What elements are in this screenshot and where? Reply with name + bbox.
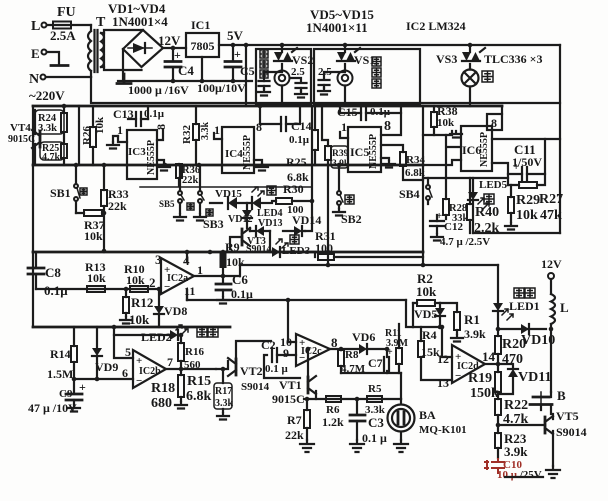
- svg-text:R32: R32: [181, 125, 193, 144]
- svg-text:L: L: [560, 300, 569, 315]
- svg-text:3.9k: 3.9k: [504, 444, 528, 459]
- resistor R17 3.3k boxed: [214, 383, 232, 409]
- svg-text:100μ/10V: 100μ/10V: [197, 81, 246, 95]
- svg-text:TLC336 ×3: TLC336 ×3: [484, 52, 543, 66]
- label left-wind vertical: [372, 57, 381, 66]
- earth symbol at E: [47, 52, 59, 64]
- svg-text:R14: R14: [50, 347, 71, 361]
- svg-text:VD9: VD9: [95, 360, 118, 374]
- big right box bottom: [422, 106, 424, 265]
- svg-text:9015C: 9015C: [272, 392, 305, 406]
- svg-text:S9014: S9014: [556, 425, 587, 439]
- svg-text:4.7k: 4.7k: [42, 152, 61, 163]
- svg-text:10k: 10k: [437, 117, 455, 129]
- horizontal wire lower-left band: [33, 326, 230, 329]
- resistor R1 3.9k: [454, 312, 460, 330]
- resistor R15 6.8k: [178, 375, 184, 397]
- svg-text:R22: R22: [504, 398, 528, 413]
- svg-text:10 μ /25V: 10 μ /25V: [497, 469, 542, 481]
- IC5 NE555P: [348, 127, 381, 172]
- svg-text:10k: 10k: [87, 271, 106, 285]
- resistor R22 4.7k: [495, 399, 501, 415]
- svg-text:R29: R29: [516, 193, 540, 208]
- ground left of IC6 top: [434, 131, 452, 135]
- triac VS1: [337, 52, 346, 61]
- svg-text:+: +: [234, 47, 241, 61]
- wire 5V rail drop to control box: [245, 45, 247, 106]
- resistor R16 560: [178, 343, 184, 361]
- label lamp CJK 2: [484, 194, 494, 204]
- svg-text:~220V: ~220V: [29, 88, 65, 103]
- svg-text:VT4: VT4: [10, 122, 31, 134]
- svg-text:VD14: VD14: [292, 213, 321, 227]
- svg-text:10k: 10k: [84, 229, 103, 243]
- svg-text:VD5: VD5: [414, 307, 437, 321]
- ground right of IC5: [381, 158, 389, 160]
- svg-text:R9: R9: [225, 240, 240, 254]
- resistor R24 3.3k: [35, 110, 64, 134]
- svg-text:47k: 47k: [540, 208, 562, 223]
- svg-text:C8: C8: [45, 265, 61, 280]
- label right CJK small: [206, 209, 213, 216]
- svg-text:R18: R18: [151, 381, 175, 396]
- svg-text:S9014: S9014: [241, 381, 270, 393]
- label auto CJK LED1: [514, 288, 524, 298]
- svg-text:C14: C14: [291, 119, 312, 133]
- wire right bus from mid band: [406, 300, 413, 327]
- svg-text:8: 8: [384, 119, 391, 134]
- wires VS1: [344, 45, 346, 105]
- IC6 pin 8 box: [487, 114, 502, 130]
- svg-text:0.1 μ: 0.1 μ: [265, 363, 289, 375]
- svg-text:SB4: SB4: [399, 187, 420, 201]
- resistor R33 22k: [101, 190, 107, 206]
- svg-text:L: L: [31, 19, 40, 34]
- svg-text:IC4: IC4: [225, 148, 243, 160]
- resistor R39 3.9k: [325, 146, 331, 160]
- resistor R36 22k: [176, 164, 182, 178]
- svg-text:47 μ /10V: 47 μ /10V: [28, 401, 77, 415]
- right edge wire of top box: [559, 45, 561, 233]
- IC2d output wire: [485, 363, 498, 365]
- svg-text:T: T: [96, 15, 106, 30]
- wire vertical bus x328: [327, 165, 329, 265]
- ground left of IC4: [214, 133, 222, 139]
- svg-text:10k: 10k: [126, 273, 145, 287]
- inductor L: [550, 279, 552, 294]
- svg-text:NE555P: NE555P: [368, 134, 379, 169]
- svg-text:10k: 10k: [516, 208, 538, 223]
- LED LED2 work: [114, 334, 169, 336]
- wire y324 row: [413, 326, 442, 328]
- resistor R34 6.8k: [400, 152, 406, 166]
- svg-text:3.9k: 3.9k: [464, 327, 486, 341]
- svg-text:LED2: LED2: [141, 330, 172, 344]
- wire bridge DC minus to ground rail: [118, 49, 252, 81]
- transistor VT3: [241, 229, 244, 245]
- resistor R7 22k: [304, 410, 310, 428]
- svg-text:SB2: SB2: [341, 212, 362, 226]
- svg-text:1: 1: [341, 120, 347, 134]
- resistor R37 10k: [84, 210, 102, 216]
- wire LED1 to VD10 row: [498, 328, 546, 330]
- IC2c output wire: [330, 348, 359, 350]
- resistor R25 4.7k: [40, 142, 64, 160]
- label right-wind vertical: [260, 50, 268, 58]
- svg-text:1.5M: 1.5M: [47, 367, 73, 381]
- svg-text:FU: FU: [57, 5, 76, 20]
- wire IC2b minus input: [74, 378, 133, 380]
- transistor VT2: [235, 359, 238, 375]
- svg-text:C2: C2: [261, 338, 276, 352]
- op-amp IC2d: [452, 345, 485, 383]
- svg-text:R15: R15: [187, 374, 211, 389]
- svg-text:VT5: VT5: [556, 409, 579, 423]
- svg-text:4.7 μ /2.5V: 4.7 μ /2.5V: [440, 236, 490, 248]
- svg-text:C3: C3: [368, 415, 384, 430]
- svg-text:E: E: [31, 46, 40, 61]
- op-amp IC2c: [296, 334, 330, 366]
- svg-text:C5: C5: [240, 64, 255, 78]
- svg-text:R4: R4: [422, 328, 437, 342]
- svg-text:13: 13: [437, 376, 449, 390]
- svg-text:VD13: VD13: [258, 218, 282, 229]
- svg-text:+: +: [513, 161, 519, 173]
- svg-text:IC2b: IC2b: [139, 366, 161, 377]
- diode VD9: [92, 348, 102, 356]
- lamp symbol: [462, 70, 479, 87]
- fan unit box VS1: [314, 49, 420, 105]
- svg-text:NE555P: NE555P: [242, 135, 253, 170]
- svg-text:8: 8: [331, 335, 338, 350]
- op-amp IC2b: [133, 350, 166, 388]
- snubber capacitor VS1 unit: [324, 72, 345, 78]
- wire bridge to IC1: [163, 47, 186, 49]
- svg-text:3.3k: 3.3k: [200, 122, 211, 141]
- microphone BA MQ-K101: [388, 405, 415, 432]
- resistor R40 2.2k: [467, 204, 473, 220]
- diode VD11: [498, 364, 513, 369]
- svg-text:R19: R19: [468, 371, 492, 386]
- label lamp CJK: [482, 71, 493, 82]
- svg-text:+: +: [174, 48, 181, 62]
- resistor R5 3.3k: [367, 396, 382, 402]
- svg-text:LED5: LED5: [479, 179, 508, 191]
- svg-text:NE555P: NE555P: [146, 140, 157, 175]
- resistor R26 10k vertical: [78, 106, 80, 165]
- svg-text:22k: 22k: [108, 199, 127, 213]
- svg-text:11: 11: [184, 284, 195, 298]
- svg-text:6: 6: [122, 366, 128, 380]
- svg-text:SB3: SB3: [203, 217, 224, 231]
- svg-text:3.3k: 3.3k: [38, 123, 57, 134]
- svg-text:IC3: IC3: [128, 146, 146, 158]
- svg-text:R40: R40: [475, 205, 499, 220]
- svg-text:SB1: SB1: [50, 186, 71, 200]
- IC6 NE555P: [461, 126, 492, 171]
- motor VS1 fan: [338, 71, 353, 86]
- left vertical edge: [32, 106, 34, 252]
- svg-text:R26: R26: [81, 126, 93, 145]
- main horizontal bus mid: [33, 164, 423, 167]
- svg-text:8: 8: [491, 116, 497, 130]
- diode VD8: [154, 306, 164, 314]
- wire emitter row y399: [304, 398, 401, 400]
- svg-text:R30: R30: [283, 182, 304, 196]
- junction dots on buses: [74, 163, 79, 168]
- resistor R8 4.7M: [338, 350, 344, 366]
- junction dots power rails: [171, 46, 176, 51]
- svg-text:B: B: [557, 388, 566, 403]
- IC2a output wire: [194, 275, 224, 277]
- svg-text:VT1: VT1: [279, 378, 302, 392]
- svg-text:5V: 5V: [227, 28, 244, 43]
- svg-text:VD6: VD6: [352, 330, 375, 344]
- svg-text:NE555P: NE555P: [479, 132, 490, 167]
- svg-text:R17: R17: [215, 386, 232, 397]
- svg-text:R5: R5: [368, 383, 382, 395]
- wire IC2a out to right bus: [240, 264, 498, 266]
- svg-text:VD8: VD8: [164, 304, 187, 318]
- svg-text:0.1μ: 0.1μ: [289, 134, 310, 146]
- resistor R29 10k: [508, 197, 514, 213]
- svg-text:LED1: LED1: [509, 299, 540, 313]
- svg-text:1N4001×4: 1N4001×4: [112, 14, 168, 29]
- LED LED1: [497, 265, 499, 303]
- switch SB5: [178, 191, 182, 195]
- LED LED4 with right label: [267, 186, 276, 195]
- buzzer B: [530, 397, 552, 405]
- svg-text:BA: BA: [419, 408, 436, 422]
- svg-text:R25: R25: [286, 155, 307, 169]
- wires VS3: [469, 45, 471, 70]
- IC2b output wire: [166, 368, 216, 370]
- capacitor C10 10u/25V red: [491, 462, 505, 468]
- transistor VT5: [544, 417, 547, 433]
- ground left of IC3: [118, 136, 127, 142]
- svg-text:12V: 12V: [158, 33, 181, 48]
- svg-text:R12: R12: [131, 295, 153, 310]
- svg-text:IC1: IC1: [191, 18, 210, 32]
- svg-text:R39: R39: [332, 149, 349, 159]
- svg-text:0.1μ: 0.1μ: [44, 283, 68, 298]
- svg-text:R7: R7: [287, 413, 302, 427]
- capacitor C5 100u/10V: [232, 45, 234, 81]
- svg-text:IC2a: IC2a: [167, 273, 188, 284]
- ground left of IC5: [340, 132, 348, 138]
- svg-text:C7: C7: [368, 356, 383, 370]
- IC3 NE555P: [127, 130, 157, 179]
- svg-text:SB5: SB5: [159, 199, 175, 209]
- resistor R6 1.2k: [326, 396, 341, 402]
- svg-text:C12: C12: [444, 221, 463, 233]
- transistor VT4: [39, 131, 42, 147]
- svg-text:R16: R16: [185, 346, 204, 358]
- label work CJK: [197, 327, 207, 337]
- svg-text:MQ-K101: MQ-K101: [419, 424, 467, 436]
- svg-text:IC5: IC5: [350, 145, 369, 159]
- wire pin5 from LED2 node: [114, 327, 133, 358]
- wire N return rail: [91, 77, 560, 103]
- svg-text:1000 μ /16V: 1000 μ /16V: [128, 83, 189, 97]
- capacitor C8 0.1u: [35, 252, 37, 266]
- svg-text:+: +: [79, 380, 86, 394]
- wire band under IC6: [423, 177, 508, 179]
- svg-text:12V: 12V: [541, 257, 562, 271]
- svg-text:10k: 10k: [226, 255, 245, 269]
- svg-text:3.3k: 3.3k: [215, 398, 234, 409]
- ground symbol power rail: [117, 74, 131, 84]
- resistor R9 10k: [220, 253, 227, 268]
- svg-text:VD12: VD12: [228, 214, 252, 225]
- svg-text:IC2 LM324: IC2 LM324: [406, 19, 466, 33]
- svg-text:6.8k: 6.8k: [287, 170, 309, 184]
- svg-text:VS3: VS3: [436, 52, 457, 66]
- long horizontal wire upper opamp band: [33, 251, 423, 254]
- svg-text:C4: C4: [178, 63, 194, 78]
- svg-text:8: 8: [256, 120, 262, 134]
- label stop CJK: [187, 203, 194, 210]
- LED LED3 with left label: [290, 235, 299, 244]
- svg-text:14: 14: [482, 349, 496, 364]
- snubber cap right of motor VS2: [290, 78, 301, 81]
- svg-text:R1: R1: [464, 312, 480, 327]
- motor VS2 fan: [275, 71, 290, 86]
- svg-text:IC2c: IC2c: [301, 346, 322, 357]
- svg-text:R38: R38: [437, 104, 458, 118]
- svg-text:9015C: 9015C: [8, 134, 35, 145]
- svg-text:1N4001×11: 1N4001×11: [306, 20, 368, 35]
- svg-text:10k: 10k: [416, 284, 437, 299]
- svg-text:22k: 22k: [285, 428, 304, 442]
- IC4 NE555P: [222, 127, 254, 173]
- resistor R20 470: [495, 336, 501, 354]
- wire vertical bus x312: [305, 106, 312, 231]
- op-amp IC2a: [161, 258, 194, 294]
- svg-text:VT2: VT2: [240, 364, 263, 378]
- wire VT4 connections: [34, 110, 36, 165]
- svg-text:2.5: 2.5: [291, 66, 305, 78]
- triac VS2: [274, 52, 283, 61]
- svg-text:N: N: [29, 72, 39, 87]
- main horizontal bus top of 555 band: [33, 105, 502, 108]
- svg-text:R27: R27: [539, 192, 563, 207]
- resistor R12 10k: [123, 297, 129, 313]
- transistor VT1: [307, 377, 310, 393]
- svg-text:2.5A: 2.5A: [50, 28, 76, 43]
- svg-text:2: 2: [149, 275, 156, 290]
- diode VD10: [521, 324, 529, 334]
- resistor R28 33k: [443, 199, 449, 215]
- wires around IC6: [446, 135, 461, 178]
- capacitor C14 0.1u: [281, 117, 286, 131]
- wires VS2: [281, 45, 283, 105]
- svg-text:10k: 10k: [94, 116, 106, 134]
- resistor R19 150k: [495, 372, 501, 392]
- resistor R27 horizontal symbol: [519, 182, 537, 188]
- svg-text:0.1 μ: 0.1 μ: [362, 431, 387, 445]
- wire mid band y300: [187, 299, 406, 301]
- svg-text:7: 7: [167, 355, 173, 369]
- wire label row top line: [140, 186, 311, 188]
- switch SB3: [198, 191, 202, 195]
- svg-text:1.2k: 1.2k: [322, 415, 344, 429]
- switch SB2 with left label: [337, 191, 341, 195]
- snubber capacitor VS2 unit: [259, 81, 270, 86]
- svg-text:680: 680: [151, 396, 172, 411]
- capacitor C3 0.1u: [356, 399, 358, 414]
- resistor R23 3.9k: [495, 433, 501, 448]
- svg-text:8: 8: [154, 124, 168, 130]
- svg-text:7805: 7805: [191, 39, 215, 53]
- capacitor C6 0.1u: [221, 274, 226, 279]
- svg-text:R8: R8: [345, 349, 359, 361]
- svg-text:VD11: VD11: [518, 370, 551, 385]
- svg-text:VS2: VS2: [292, 53, 313, 67]
- svg-text:9: 9: [283, 346, 289, 360]
- svg-text:22k: 22k: [182, 175, 199, 186]
- wire R2 node to R1: [440, 303, 457, 312]
- ground right of IC4: [254, 160, 262, 163]
- svg-text:R20: R20: [502, 337, 526, 352]
- ground right of IC3: [157, 160, 164, 164]
- wire under C7 R11: [341, 372, 401, 374]
- wire opamp input row: [36, 288, 157, 290]
- wire N to transformer: [46, 76, 91, 78]
- fan unit box VS2: [256, 49, 311, 105]
- capacitor C4 1000u/16V: [172, 47, 174, 81]
- svg-text:6.8k: 6.8k: [186, 389, 212, 404]
